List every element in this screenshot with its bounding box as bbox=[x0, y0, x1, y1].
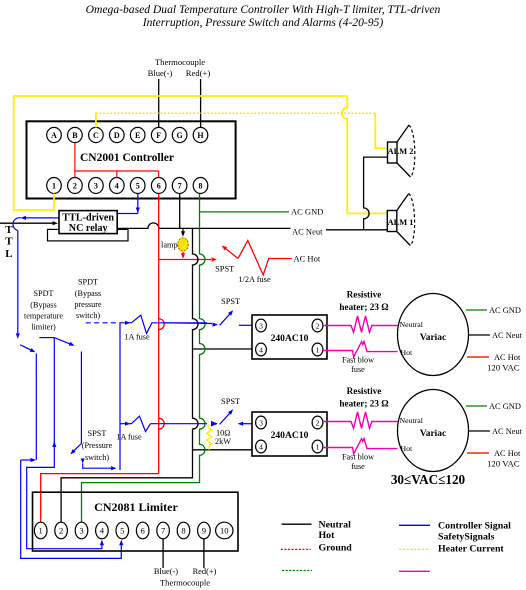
svg-text:1A fuse: 1A fuse bbox=[124, 333, 150, 342]
wire CN2081 pin7 thermocouple bbox=[162, 539, 164, 568]
switch SPDT1 pole arrow bbox=[16, 333, 20, 339]
wire link to left drop (blue) bbox=[21, 459, 31, 461]
SPDT2 top bar (blue) bbox=[39, 337, 54, 339]
wire pin B to pin 2 (red) bbox=[74, 143, 76, 178]
svg-text:7: 7 bbox=[161, 526, 166, 536]
wire AC GND (green) bbox=[200, 211, 290, 213]
wire red bus 2-4-6 bbox=[75, 170, 159, 172]
svg-text:1: 1 bbox=[316, 346, 320, 355]
wire AC Neut to ALM1 bbox=[326, 229, 387, 231]
svg-text:AC Neut: AC Neut bbox=[292, 227, 323, 237]
wire relay signal arc+down (blue) bbox=[13, 218, 21, 333]
legend controller signal line bbox=[399, 524, 430, 526]
red hop over blue ch2 bbox=[159, 418, 165, 429]
CN2081 pin 1 bbox=[34, 522, 47, 539]
svg-text:TTL-driven: TTL-driven bbox=[62, 213, 114, 224]
svg-text:1/2A fuse: 1/2A fuse bbox=[238, 275, 271, 284]
fuse 1A ch2 (blue) bbox=[125, 422, 131, 426]
wire CN2081 pin9 thermocouple bbox=[203, 539, 205, 568]
legend ground line bbox=[281, 548, 311, 550]
wire TTL input (black) bbox=[0, 222, 53, 224]
svg-text:Variac: Variac bbox=[420, 333, 446, 343]
legend magenta line bbox=[399, 570, 430, 572]
svg-text:SPST: SPST bbox=[88, 429, 107, 438]
CN2081 pin 4 bbox=[96, 522, 109, 539]
wire ALM2 black return bbox=[364, 157, 388, 230]
svg-text:B: B bbox=[72, 131, 78, 140]
variac ch2 AC output lines+labels bbox=[466, 405, 487, 407]
wire heater current dotted C (yellow) bbox=[96, 112, 375, 114]
svg-text:switch): switch) bbox=[85, 453, 109, 462]
fuse fast-blow ch2 (magenta) bbox=[323, 439, 398, 455]
CN2001 pin 3 bbox=[89, 178, 104, 194]
wire red tap pin 6 bbox=[158, 171, 160, 178]
svg-text:SPST: SPST bbox=[221, 297, 240, 306]
svg-text:SafetySignals: SafetySignals bbox=[438, 532, 495, 543]
switch SPST ch2 lever bbox=[220, 413, 230, 424]
svg-text:2: 2 bbox=[316, 419, 320, 428]
svg-text:5: 5 bbox=[136, 182, 140, 191]
wire bypass vertical (blue) bbox=[119, 323, 121, 470]
wire yellow stub into pin C bbox=[95, 113, 97, 127]
svg-text:Hot: Hot bbox=[319, 530, 336, 541]
CN2001 pin 6 bbox=[151, 178, 166, 194]
svg-text:lamp: lamp bbox=[161, 241, 178, 250]
CN2001 pin C bbox=[89, 127, 104, 142]
wire bypass dashed (blue) bbox=[86, 322, 120, 324]
switch SPST (alarm) lever bbox=[226, 249, 239, 259]
svg-text:6: 6 bbox=[157, 182, 161, 191]
svg-text:Neutral: Neutral bbox=[319, 520, 352, 531]
wire ground vertical (green) bbox=[82, 254, 206, 522]
svg-text:AC GND: AC GND bbox=[291, 207, 323, 217]
svg-text:Thermocouple: Thermocouple bbox=[160, 578, 210, 588]
wire thermocouple red(+) to pin H bbox=[200, 79, 202, 128]
wire SPDT1 contact down (blue) bbox=[35, 354, 37, 461]
fuse fast-blow ch1 (magenta) bbox=[323, 342, 398, 358]
wire pin6 AC hot vertical (red) bbox=[158, 194, 160, 474]
triac box 240AC10 ch2 bbox=[252, 412, 327, 456]
wire yellow to ALM2 bbox=[375, 113, 386, 148]
svg-text:Neutral: Neutral bbox=[400, 416, 424, 425]
svg-text:1A fuse: 1A fuse bbox=[116, 432, 142, 441]
svg-text:10: 10 bbox=[220, 526, 229, 536]
svg-text:AC Neut: AC Neut bbox=[492, 427, 523, 436]
svg-text:Heater Current: Heater Current bbox=[438, 544, 504, 555]
fuse 1A ch1 (blue) bbox=[125, 321, 131, 325]
wire ch1 to SPST (blue) bbox=[164, 322, 212, 325]
svg-text:Interruption, Pressure Switch: Interruption, Pressure Switch and Alarms… bbox=[142, 16, 384, 29]
svg-text:H: H bbox=[197, 131, 204, 140]
svg-text:AC Neut: AC Neut bbox=[492, 331, 523, 340]
alarm ALM1 speaker bbox=[387, 211, 397, 232]
CN2001 pin G bbox=[172, 127, 187, 142]
CN2001 pin 2 bbox=[68, 178, 83, 194]
svg-text:120 VAC: 120 VAC bbox=[487, 459, 520, 469]
svg-text:AC Hot: AC Hot bbox=[494, 449, 521, 458]
CN2081 pin 6 bbox=[136, 522, 149, 539]
svg-text:fuse: fuse bbox=[351, 462, 365, 471]
switch SPDT1 lever bbox=[20, 345, 31, 351]
wire AC hot branch (red) bbox=[159, 259, 211, 261]
wire pin8 ground vertical upper (green) bbox=[199, 194, 201, 254]
svg-text:Blue(-): Blue(-) bbox=[154, 567, 178, 576]
controller CN2001 box bbox=[27, 121, 236, 198]
svg-text:6: 6 bbox=[141, 526, 146, 536]
svg-text:G: G bbox=[176, 131, 182, 140]
svg-text:120 VAC: 120 VAC bbox=[487, 363, 520, 373]
wire lamp to AC hot (red) bbox=[182, 252, 184, 254]
svg-text:SPST: SPST bbox=[215, 265, 234, 274]
svg-text:Hot: Hot bbox=[401, 348, 414, 357]
wire thermocouple blue(-) to pin F bbox=[158, 79, 160, 128]
svg-text:AC Hot: AC Hot bbox=[294, 254, 321, 264]
wire neutral vertical (black) bbox=[61, 228, 198, 522]
svg-text:AC GND: AC GND bbox=[489, 402, 521, 411]
svg-text:switch): switch) bbox=[76, 311, 100, 320]
svg-text:2: 2 bbox=[73, 182, 77, 191]
relay rear box bbox=[48, 229, 129, 241]
CN2001 pin H bbox=[193, 127, 208, 142]
wire 240AC10-2 pin3 lead (blue) bbox=[243, 423, 252, 425]
svg-text:Resistive: Resistive bbox=[347, 290, 382, 300]
switch SPST ch1 lever bbox=[220, 314, 230, 325]
switch SPST ch2 arrow bbox=[211, 421, 218, 427]
lamp bbox=[178, 238, 188, 251]
wire neutral to 240AC10-2 pin4 (black) bbox=[193, 449, 253, 451]
svg-text:30≤VAC≤120: 30≤VAC≤120 bbox=[391, 472, 466, 487]
wire SPDT2 pole down (blue) bbox=[27, 338, 102, 549]
wire neutral to 240AC10-1 pin4 (black) bbox=[193, 348, 253, 350]
svg-text:3: 3 bbox=[94, 182, 98, 191]
svg-text:A: A bbox=[51, 131, 57, 140]
svg-text:Ground: Ground bbox=[319, 543, 353, 554]
alarm ALM2 speaker bbox=[388, 142, 398, 163]
svg-text:8: 8 bbox=[181, 526, 185, 536]
svg-text:Red(+): Red(+) bbox=[193, 567, 217, 576]
svg-text:SPDT: SPDT bbox=[33, 289, 53, 298]
CN2081 pin 3 bbox=[75, 522, 88, 539]
CN2081 pin 5 bbox=[116, 522, 129, 539]
svg-text:ALM 1: ALM 1 bbox=[388, 218, 414, 227]
svg-text:(Bypass: (Bypass bbox=[75, 289, 101, 298]
svg-text:F: F bbox=[156, 131, 161, 140]
svg-text:NC relay: NC relay bbox=[69, 223, 108, 234]
svg-text:AC GND: AC GND bbox=[489, 306, 521, 315]
wire relay feedback (blue) bbox=[26, 217, 59, 219]
relay TTL-driven NC relay box bbox=[59, 211, 117, 234]
svg-text:1: 1 bbox=[39, 526, 43, 536]
CN2001 pin 1 bbox=[47, 178, 62, 194]
svg-text:heater; 23 Ω: heater; 23 Ω bbox=[339, 302, 388, 312]
wire SPDT2 contact down (blue) bbox=[80, 352, 82, 444]
lamp tap (black) bbox=[182, 228, 184, 231]
legend neutral line bbox=[282, 523, 312, 525]
svg-text:L: L bbox=[5, 248, 12, 260]
switch SPDT2 lever bbox=[54, 338, 70, 345]
CN2001 pin D bbox=[110, 127, 125, 142]
CN2001 pin 5 bbox=[130, 178, 145, 194]
svg-text:3: 3 bbox=[79, 526, 83, 536]
svg-text:CN2001 Controller: CN2001 Controller bbox=[80, 152, 174, 164]
resistor heater ch2 (magenta) bbox=[323, 412, 398, 428]
wire AC Neut (black) bbox=[117, 223, 290, 229]
svg-text:SPST: SPST bbox=[221, 397, 240, 406]
svg-text:Variac: Variac bbox=[420, 429, 446, 439]
switch SPST ch1 arrow bbox=[213, 323, 219, 327]
svg-text:240AC10: 240AC10 bbox=[271, 430, 309, 441]
svg-text:3: 3 bbox=[259, 419, 263, 428]
resistor 10ohm (yellow) bbox=[207, 425, 212, 450]
svg-text:1: 1 bbox=[52, 182, 56, 191]
svg-text:ALM 2: ALM 2 bbox=[388, 147, 414, 156]
svg-text:SPDT: SPDT bbox=[78, 278, 98, 287]
svg-text:temperature: temperature bbox=[24, 312, 63, 321]
CN2081 pin 7 bbox=[157, 522, 170, 539]
svg-text:2: 2 bbox=[59, 526, 63, 536]
svg-text:C: C bbox=[93, 131, 99, 140]
svg-text:Controller Signal: Controller Signal bbox=[438, 521, 511, 532]
svg-text:4: 4 bbox=[259, 443, 263, 452]
variac ch1 bbox=[398, 294, 469, 376]
CN2001 pin A bbox=[47, 127, 62, 142]
svg-text:T: T bbox=[5, 224, 13, 236]
red hop over blue ch1 bbox=[159, 319, 165, 330]
svg-text:Omega-based Dual Temperature C: Omega-based Dual Temperature Controller … bbox=[86, 3, 441, 16]
wire left drop to pin5 (blue) bbox=[21, 460, 122, 558]
wire heater current loop pin1-ALM1 (yellow) bbox=[14, 96, 387, 213]
legend heater current line bbox=[399, 548, 430, 550]
svg-text:Hot: Hot bbox=[401, 444, 414, 453]
svg-text:E: E bbox=[135, 131, 140, 140]
variac ch2 bbox=[398, 390, 469, 472]
CN2001 pin 7 bbox=[172, 178, 187, 194]
svg-text:Blue(-): Blue(-) bbox=[148, 68, 173, 78]
legend green line bbox=[282, 570, 312, 572]
svg-text:CN2081 Limiter: CN2081 Limiter bbox=[94, 500, 178, 514]
svg-text:Fast blow: Fast blow bbox=[342, 356, 374, 365]
CN2001 pin F bbox=[151, 127, 166, 142]
variac ch1 AC output lines+labels bbox=[466, 309, 487, 311]
svg-text:Neutral: Neutral bbox=[400, 320, 424, 329]
CN2081 pin 2 bbox=[55, 522, 68, 539]
svg-text:5: 5 bbox=[120, 526, 124, 536]
svg-text:4: 4 bbox=[259, 346, 263, 355]
svg-text:4: 4 bbox=[100, 526, 105, 536]
svg-text:Fast blow: Fast blow bbox=[342, 453, 374, 462]
svg-text:Thermocouple: Thermocouple bbox=[155, 57, 205, 67]
svg-text:(Pressure: (Pressure bbox=[82, 441, 113, 450]
svg-text:9: 9 bbox=[202, 526, 206, 536]
svg-text:4: 4 bbox=[115, 182, 119, 191]
svg-text:2: 2 bbox=[316, 322, 320, 331]
pressure contact arrow (blue) bbox=[81, 459, 85, 464]
wire red tap pin 4 bbox=[116, 171, 118, 178]
svg-text:Red(+): Red(+) bbox=[186, 68, 211, 78]
fuse 1/2A (red) bbox=[238, 241, 292, 276]
CN2081 pin 9 bbox=[198, 522, 211, 539]
svg-text:(Bypass: (Bypass bbox=[30, 301, 56, 310]
CN2001 pin 8 bbox=[193, 178, 208, 194]
wire red to CN2081 pin1 bbox=[41, 474, 159, 522]
CN2001 pin 4 bbox=[110, 178, 125, 194]
limiter CN2081 box bbox=[33, 492, 239, 551]
svg-text:pressure: pressure bbox=[74, 300, 102, 309]
svg-text:8: 8 bbox=[199, 182, 203, 191]
wire pin5 to relay (blue) bbox=[137, 194, 139, 214]
CN2081 pin 10 bbox=[216, 522, 233, 539]
svg-text:D: D bbox=[114, 131, 120, 140]
switch SPST pressure lever bbox=[74, 444, 82, 452]
CN2081 pin 8 bbox=[177, 522, 190, 539]
wire SPST ch1 to 240AC10-1 pin3 (blue) bbox=[239, 324, 252, 326]
svg-text:AC Hot: AC Hot bbox=[494, 353, 521, 362]
svg-text:Resistive: Resistive bbox=[347, 386, 382, 396]
CN2001 pin E bbox=[130, 127, 145, 142]
svg-text:240AC10: 240AC10 bbox=[271, 333, 309, 344]
wire pin7 to neutral (black) bbox=[179, 194, 181, 228]
svg-text:3: 3 bbox=[259, 322, 263, 331]
wire pressure contact to bypass line (blue) bbox=[83, 464, 111, 469]
triac box 240AC10 ch1 bbox=[252, 315, 327, 359]
svg-text:T: T bbox=[5, 236, 13, 248]
svg-text:7: 7 bbox=[178, 182, 182, 191]
svg-text:1: 1 bbox=[316, 443, 320, 452]
svg-text:limiter): limiter) bbox=[31, 323, 56, 332]
svg-text:heater; 23 Ω: heater; 23 Ω bbox=[339, 399, 388, 409]
resistor heater ch1 (magenta) bbox=[323, 316, 398, 332]
CN2001 pin B bbox=[68, 127, 83, 142]
svg-text:2kW: 2kW bbox=[215, 437, 231, 446]
svg-text:fuse: fuse bbox=[351, 365, 365, 374]
